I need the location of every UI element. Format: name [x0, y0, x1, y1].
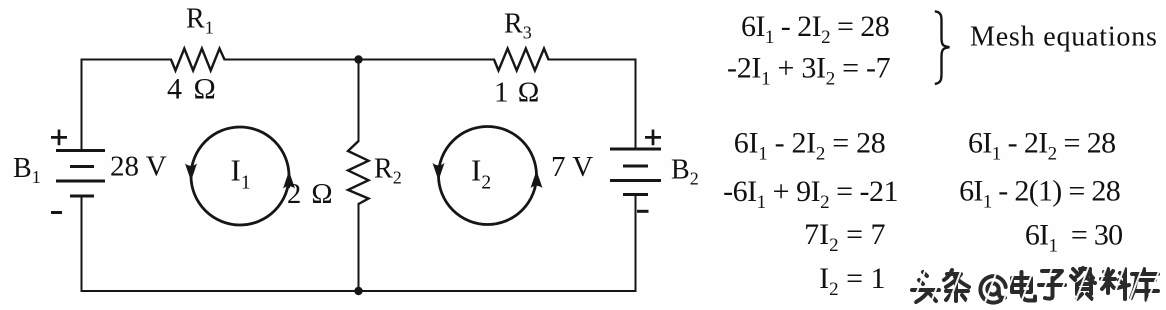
svg-text:6I1 - 2I2 = 28: 6I1 - 2I2 = 28: [734, 127, 886, 165]
svg-text:I2 = 1: I2 = 1: [819, 262, 885, 300]
svg-text:R1: R1: [186, 4, 214, 38]
svg-text:6I1 - 2I2 = 28: 6I1 - 2I2 = 28: [741, 10, 889, 48]
svg-text:B1: B1: [13, 153, 41, 187]
svg-text:6I1 - 2(1) = 28: 6I1 - 2(1) = 28: [959, 175, 1120, 213]
svg-text:R2: R2: [374, 154, 402, 188]
svg-text:7I2 = 7: 7I2 = 7: [804, 218, 885, 256]
svg-text:6I1 - 2I2 = 28: 6I1 - 2I2 = 28: [968, 127, 1116, 165]
svg-text:-2I1 + 3I2 = -7: -2I1 + 3I2 = -7: [727, 52, 891, 90]
svg-text:2 Ω: 2 Ω: [287, 179, 334, 210]
svg-text:-6I1 + 9I2 = -21: -6I1 + 9I2 = -21: [723, 175, 898, 213]
svg-text:R3: R3: [504, 9, 532, 43]
svg-text:28 V: 28 V: [110, 151, 167, 183]
svg-text:6I1 = 30: 6I1 = 30: [1025, 219, 1123, 257]
svg-text:I1: I1: [231, 153, 251, 194]
svg-text:7 V: 7 V: [551, 151, 593, 183]
svg-text:1 Ω: 1 Ω: [494, 77, 540, 109]
svg-text:B2: B2: [671, 155, 699, 189]
svg-text:4 Ω: 4 Ω: [167, 73, 218, 106]
svg-text:I2: I2: [471, 153, 491, 194]
svg-text:Mesh equations: Mesh equations: [970, 22, 1158, 53]
